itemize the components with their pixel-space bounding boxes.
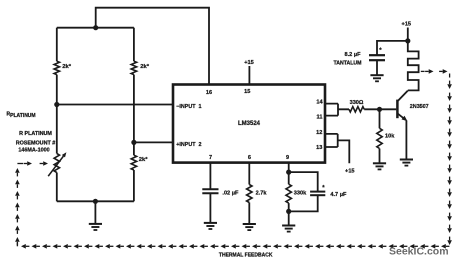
svg-text:330Ω: 330Ω [350,100,364,106]
value label 2.7k [256,191,268,197]
pin 12 [316,130,322,136]
svg-text:LM3524: LM3524 [238,121,261,127]
svg-text:TANTALUM: TANTALUM [333,61,361,67]
wire to +INPUT pin 2 [134,141,173,143]
svg-text:8.2 µF: 8.2 µF [345,52,362,58]
svg-text:11: 11 [317,115,323,121]
pin 7 [209,155,212,161]
label R PLATINUM ROSEMOUNT # 146MA-1000 [16,131,56,153]
svg-text:+15: +15 [345,168,355,174]
power +15 at pin 15 [244,60,254,85]
capacitor C1 .02uF on pin 7 [202,163,218,223]
resistor R3 2k (lower bridge) [131,142,136,201]
watermark SeekIC.com [389,246,449,258]
svg-text:2k*: 2k* [139,157,148,163]
svg-text:146MA-1000: 146MA-1000 [18,147,49,153]
wire 330ohm to base [364,108,396,110]
node bottom junction [93,199,98,204]
svg-text:R PLATINUM: R PLATINUM [19,131,52,137]
node pin9 top junction [286,170,291,175]
value label 2k* for R2 [140,64,149,70]
label THERMAL FEEDBACK [219,253,273,259]
resistor R1 2k (left bridge) [54,28,59,105]
svg-text:−INPUT 1: −INPUT 1 [176,104,201,110]
wire bottom left rail [57,200,134,202]
svg-text:+15: +15 [244,60,254,66]
svg-text:9: 9 [286,155,289,161]
wire thermal feedback right vertical (down arrows) [447,81,452,245]
value label 2k* for R1 [62,64,71,70]
resistor R6 330 ohm [349,107,364,112]
resistor R4 2.7k on pin 6 [247,163,252,224]
op-amp U1 LM3524 package outline [173,85,325,163]
capacitor C2 4.7uF parallel with R5 [289,172,326,211]
platinum sensor RV (variable resistor) [48,105,66,202]
value label 330k [294,191,307,197]
svg-text:2.7k: 2.7k [256,191,268,197]
svg-text:+15: +15 [402,22,412,28]
transistor Q1 2N3507 [397,91,407,160]
label R_PLATINUM node name [7,112,36,120]
wire thermal feedback from heater (right arrows) [421,69,450,77]
svg-text:+INPUT 2: +INPUT 2 [176,142,201,148]
svg-text:2N3507: 2N3507 [410,104,429,110]
resistor R5 330k on pin 9 [286,163,291,226]
heater element (meander resistor) [408,41,419,91]
node pin9 bottom junction [286,209,291,214]
value label 2k* for R3 [139,157,148,163]
value label .02 uF [222,191,239,197]
ground G3 under R4 [243,224,256,230]
ground G5 under C3 [370,75,383,81]
svg-text:16: 16 [206,90,212,96]
svg-text:6: 6 [248,155,251,161]
ground G7 under emitter [400,160,413,166]
svg-text:ROSEMOUNT #: ROSEMOUNT # [16,140,56,146]
node junction +input [131,140,136,145]
node +15 junction [405,38,410,43]
ground G2 under C1 [204,223,217,229]
value label 10k [385,133,395,139]
pin label +INPUT 2 [176,142,201,148]
node base junction [377,107,382,112]
pin 16 [206,90,212,96]
svg-text:2k*: 2k* [140,64,149,70]
pin 14 [316,99,323,105]
node junction left rail / -input [54,102,59,107]
pin 6 [248,155,251,161]
resistor R7 10k [377,109,382,163]
pin 9 [286,155,289,161]
wire to -INPUT pin 1 [57,104,173,106]
pin 15 [244,89,250,95]
power +15 at pins 12/13 [345,168,355,174]
value label 4.7 uF [330,192,347,198]
svg-text:SeekIC.com: SeekIC.com [389,246,449,258]
label LM3524 [238,121,261,127]
svg-text:15: 15 [244,89,250,95]
ground G6 under R7 [373,163,386,169]
svg-text:THERMAL FEEDBACK: THERMAL FEEDBACK [219,253,273,259]
svg-text:13: 13 [316,145,322,151]
pin 11 [317,115,323,121]
svg-text:.02 µF: .02 µF [222,191,239,197]
node top divider junction [93,25,98,30]
ground G4 under R5 [282,226,295,232]
value label 8.2 uF TANTALUM [333,52,361,67]
wire thermal feedback bottom line (left arrows) [17,243,449,249]
wire pins 14/11 output bracket [325,104,349,116]
power +15 top right [402,22,412,41]
label 2N3507 [410,104,429,110]
pin label -INPUT 1 [176,104,201,110]
capacitor C3 8.2uF tantalum [369,41,408,75]
value label 330 ohm [350,100,364,106]
wire thermal feedback left vertical (up arrows) [15,168,20,245]
wire pins 12/13 to +15 [325,134,349,163]
svg-text:4.7 µF: 4.7 µF [330,192,347,198]
svg-text:12: 12 [316,130,322,136]
svg-text:14: 14 [316,99,323,105]
pin 13 [316,145,322,151]
wire divider top rail [57,27,134,29]
svg-text:330k: 330k [294,191,307,197]
wire thermal feedback arrow into sensor [17,161,48,166]
ground G1 (bridge bottom) [89,201,102,230]
svg-text:7: 7 [209,155,212,161]
polarity mark for C2 [322,186,325,192]
svg-text:2k*: 2k* [62,64,71,70]
svg-text:RPLATINUM: RPLATINUM [7,112,36,120]
svg-text:10k: 10k [385,133,395,139]
resistor R2 2k (right bridge) [131,28,136,143]
polarity mark for C3 [379,48,382,54]
wire top loop from divider to pin 16 [96,8,209,85]
